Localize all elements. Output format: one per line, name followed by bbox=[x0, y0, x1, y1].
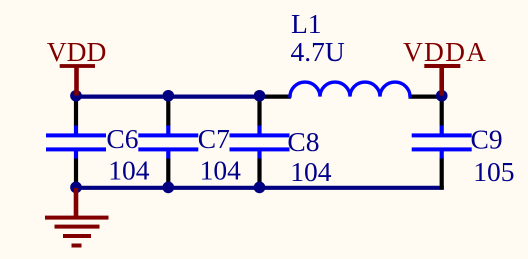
svg-text:C6: C6 bbox=[106, 123, 138, 154]
svg-text:104: 104 bbox=[108, 154, 150, 185]
svg-text:VDDA: VDDA bbox=[403, 36, 487, 67]
svg-text:C7: C7 bbox=[198, 123, 230, 154]
svg-text:C8: C8 bbox=[287, 126, 319, 157]
svg-text:C9: C9 bbox=[471, 124, 503, 155]
svg-text:104: 104 bbox=[290, 156, 332, 187]
svg-text:VDD: VDD bbox=[47, 36, 107, 67]
svg-text:105: 105 bbox=[473, 156, 514, 187]
svg-text:L1: L1 bbox=[291, 8, 322, 39]
svg-text:4.7U: 4.7U bbox=[291, 36, 345, 67]
svg-text:104: 104 bbox=[200, 154, 242, 185]
